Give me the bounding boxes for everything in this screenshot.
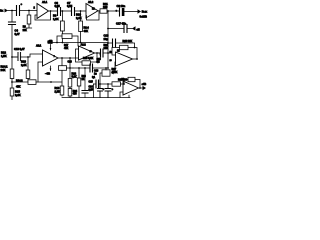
wire R13 drop <box>27 57 29 70</box>
svg-text:100: 100 <box>103 5 108 9</box>
svg-text:0,15: 0,15 <box>55 4 61 8</box>
svg-text:47K: 47K <box>16 85 21 89</box>
wire C18 to feedback node <box>116 43 135 48</box>
capacitor C9 <box>119 8 121 16</box>
svg-text:10K: 10K <box>104 46 109 50</box>
svg-text:+6В: +6В <box>142 82 147 86</box>
capacitor C17 <box>124 25 127 33</box>
svg-text:2,4K: 2,4K <box>21 63 27 67</box>
capacitor C7 <box>72 8 75 16</box>
wire A2.4 out <box>133 58 138 60</box>
op-amp A2.4 <box>116 52 133 66</box>
bottom rail right <box>94 97 131 99</box>
wire A2.2 out to C17b <box>97 52 101 54</box>
wire R10 drop <box>80 11 82 21</box>
svg-text:A2.1: A2.1 <box>36 44 42 48</box>
svg-text:0+28В: 0+28В <box>140 14 147 18</box>
resistor R19 <box>82 61 91 65</box>
svg-text:+И: +И <box>136 27 139 31</box>
svg-text:1,2K: 1,2K <box>53 17 59 21</box>
resistor R10 <box>79 21 83 32</box>
svg-text:22K: 22K <box>23 29 27 32</box>
svg-text:R25 10K: R25 10K <box>123 39 133 43</box>
svg-text:0,15: 0,15 <box>67 4 73 8</box>
wire A1.1 out to C6 <box>51 10 58 12</box>
rail bottom-left <box>12 81 62 83</box>
resistor R16 <box>60 86 64 95</box>
bottom rail mid <box>62 97 93 99</box>
wire C18 branch <box>108 42 113 44</box>
wire C15 to R29 <box>99 83 113 85</box>
wire R9 drop <box>61 11 63 21</box>
wire y68 horizontal <box>73 67 90 69</box>
svg-text:43K: 43K <box>64 47 68 50</box>
terminal +Ip <box>132 26 136 30</box>
resistor R29 <box>112 82 121 86</box>
resistor R25 <box>120 45 129 49</box>
resistor R11 <box>100 9 107 13</box>
capacitor C6 <box>58 8 61 16</box>
cap leg x108 bottom <box>105 84 111 98</box>
svg-text:470K: 470K <box>112 70 118 74</box>
node R9 <box>62 10 64 12</box>
svg-text:A1.2: A1.2 <box>88 0 94 4</box>
svg-text:2,4K: 2,4K <box>15 93 21 97</box>
capacitor C4 <box>9 22 16 25</box>
wire R9 to rail <box>61 31 63 43</box>
wire R10 to rail <box>80 32 82 43</box>
output terminal Out1 <box>138 9 142 13</box>
resistor R18 bias <box>62 34 72 39</box>
svg-text:C10 0,47: C10 0,47 <box>14 47 25 51</box>
capacitor C15 <box>96 80 99 88</box>
wire C17b to A2.4 -input <box>103 53 116 55</box>
A3 +input stub <box>120 92 123 98</box>
wire input to C1 <box>8 10 17 12</box>
wire drop x108 <box>107 11 109 68</box>
+6V rail <box>52 42 108 44</box>
wire rail up x42 <box>50 81 52 83</box>
capacitor C17b <box>101 49 104 57</box>
svg-text:R19 6,2K: R19 6,2K <box>83 56 93 60</box>
svg-text:2,4K: 2,4K <box>76 16 82 20</box>
wire C1 to A1.1 <box>20 10 38 12</box>
resistor R24 <box>68 89 72 97</box>
svg-text:47K: 47K <box>84 29 89 33</box>
feedback loop A1.2 <box>87 11 100 20</box>
svg-text:R6.4: R6.4 <box>84 26 90 30</box>
node R10 <box>80 10 82 12</box>
A2.1 lower input wire <box>38 62 43 82</box>
A3 feedback loop <box>124 80 143 89</box>
wire R13 to rail <box>27 79 29 83</box>
power -6V arrow A2.1 <box>50 66 52 71</box>
capacitor C13b <box>90 64 93 72</box>
svg-text:C9 10n: C9 10n <box>117 4 126 8</box>
input terminal Vx <box>5 9 9 13</box>
op-amp A1.2 <box>86 4 98 19</box>
wire x70 column <box>69 58 71 79</box>
wire R8 drop <box>28 11 30 16</box>
svg-text:A2.2: A2.2 <box>81 43 87 47</box>
svg-text:1,5K: 1,5K <box>1 54 7 58</box>
wire C4 down to C10 node <box>11 25 13 58</box>
A2.1 output <box>58 57 79 59</box>
node drop x108 <box>107 10 109 12</box>
wire C17 branch <box>108 28 124 30</box>
wire R11 to output <box>107 10 120 12</box>
A3 ground stub <box>128 95 130 97</box>
resistor R9 <box>61 21 65 31</box>
svg-text:5,6K: 5,6K <box>72 75 77 79</box>
wire C7 to A1.2 <box>75 10 87 12</box>
resistor R14.1 <box>10 69 14 79</box>
svg-text:A1.1: A1.1 <box>42 0 48 4</box>
wire A1.2 out <box>98 10 100 12</box>
resistor R22 <box>68 79 72 88</box>
A2.2 output <box>95 53 101 55</box>
resistor R23 <box>78 68 80 78</box>
capacitor C1 <box>17 6 20 16</box>
resistor R8 <box>27 15 31 24</box>
resistor R28 feedback <box>128 77 135 81</box>
feedback A2.4: wire <box>128 48 137 60</box>
wire C17 to terminal <box>127 28 132 30</box>
feedback loop A1.1 <box>35 11 51 20</box>
op-amp A3 <box>123 81 139 95</box>
svg-text:R14.2: R14.2 <box>16 78 23 82</box>
potentiometer R27 <box>102 70 110 76</box>
pot wiper arrow R27 <box>113 62 116 73</box>
node R13 <box>27 56 29 58</box>
svg-text:1,5K: 1,5K <box>55 90 61 94</box>
A2.1 feedback resistor R16a <box>61 58 63 96</box>
wire down from input node <box>11 11 13 23</box>
wire to R14.1 <box>11 57 13 69</box>
wire C10 to A2.1 <box>21 54 43 57</box>
resistor R15 <box>10 88 14 96</box>
wire R14.1 to rail <box>11 79 13 83</box>
op-amp A2.2 <box>79 46 95 60</box>
output terminal Out2 <box>143 86 147 90</box>
svg-text:C17 47n: C17 47n <box>116 21 126 25</box>
wire y68 cont <box>93 67 109 69</box>
capacitor C14 <box>84 68 86 91</box>
svg-text:24K: 24K <box>1 68 6 72</box>
op-amp A1.1 <box>37 4 49 19</box>
ground under R8 <box>26 24 31 28</box>
op-amp A2.1 <box>43 50 59 66</box>
svg-text:1K: 1K <box>82 78 85 81</box>
capacitor C18 <box>113 39 116 47</box>
resistor R14.2 <box>28 80 36 85</box>
resistor R15.2 feedback <box>59 66 67 71</box>
A2.2 feedback <box>76 49 98 62</box>
resistor R13 <box>26 70 30 79</box>
svg-text:0,47: 0,47 <box>15 32 21 36</box>
wire C6 to C7 <box>61 10 72 12</box>
wire C9 to output <box>124 11 137 13</box>
svg-text:−6В: −6В <box>45 72 50 76</box>
svg-text:10μ: 10μ <box>104 37 109 41</box>
pot left leg to input wire <box>100 73 102 84</box>
node input branch <box>11 10 13 12</box>
capacitor C10 <box>12 53 21 61</box>
svg-text:+6В: +6В <box>48 41 53 45</box>
wire y84 input A3 <box>94 83 97 85</box>
svg-text:Вых: Вых <box>142 10 148 14</box>
